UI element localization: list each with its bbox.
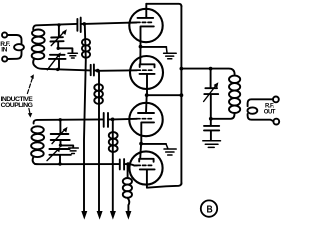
variable capacitor C1 lower stem bbox=[58, 59, 60, 69]
tube V3 cathode bbox=[141, 122, 154, 143]
C1 rotor tap wire bbox=[58, 42, 72, 53]
variable capacitor C1 upper arrowhead bbox=[62, 29, 67, 35]
svg-text:COUPLING: COUPLING bbox=[1, 102, 33, 109]
RF output terminal bottom bbox=[273, 119, 279, 125]
variable capacitor C1 upper section stem bbox=[58, 25, 60, 36]
junction dot tank1 bottom at C1 stem bbox=[56, 68, 59, 71]
bus junction dot at output tank bbox=[180, 67, 184, 71]
output link top wire bbox=[248, 99, 273, 106]
plate bus bbox=[180, 6, 182, 184]
svg-text:IN: IN bbox=[1, 47, 7, 54]
ground between V1 and V2 bbox=[164, 47, 177, 59]
supply line D bbox=[127, 165, 129, 211]
wire V1 cathode to V2 plate bbox=[139, 47, 141, 64]
RF output terminal top bbox=[273, 97, 279, 103]
ground between V3 and V4 bbox=[164, 144, 176, 155]
output variable capacitor stem bottom bbox=[210, 94, 212, 118]
grid choke 2 loops bbox=[94, 84, 103, 104]
variable capacitor C4 lower plates bbox=[49, 149, 71, 155]
output tank coil bbox=[229, 76, 240, 113]
C4 rotor junction dot bbox=[59, 144, 62, 147]
variable capacitor C4 lower arrow bbox=[47, 150, 58, 161]
output link bottom wire bbox=[248, 114, 274, 121]
output variable capacitor plates bbox=[204, 88, 218, 94]
junction dot tank1 top at C1 stem bbox=[57, 23, 60, 26]
wire V2 cathode junction to bus bbox=[147, 94, 181, 96]
node G1 dot bbox=[83, 22, 87, 26]
cathode junction dot V1 bbox=[139, 45, 143, 49]
tank 2 bottom wire bbox=[35, 163, 119, 165]
variable capacitor C4 lower stem bbox=[59, 155, 61, 164]
variable capacitor C1 lower arrowhead bbox=[56, 52, 61, 58]
tube V3 grid bbox=[137, 118, 152, 120]
grid wire to tube V2 bbox=[98, 69, 137, 72]
variable capacitor C4 upper arrowhead bbox=[63, 127, 68, 133]
tube V1 cathode bbox=[141, 26, 154, 46]
cathode junction dot V3 bbox=[139, 142, 143, 146]
variable capacitor C1 upper arrow bbox=[51, 32, 63, 45]
tube V2 cathode bbox=[140, 74, 155, 95]
junction dot output tank bottom bbox=[209, 117, 213, 121]
junction dot tank2 top at C4 stem bbox=[59, 118, 62, 121]
wire V3 cathode to V4 plate bbox=[139, 144, 142, 159]
output variable capacitor stem top bbox=[210, 69, 212, 88]
wire from link loop to bottom input terminal bbox=[8, 50, 22, 59]
RF input terminal bottom bbox=[2, 56, 7, 61]
tank 1 bottom wire bbox=[36, 67, 91, 71]
wire from top input terminal to link loop bbox=[7, 35, 21, 44]
output variable capacitor arrowhead bbox=[214, 82, 219, 88]
supply arrow B bbox=[97, 211, 103, 220]
coupling capacitor C6 plates bbox=[120, 159, 124, 170]
tube V2 plate bbox=[140, 64, 155, 67]
ground at C1 tap bbox=[68, 53, 77, 58]
variable capacitor C1 lower plates bbox=[49, 55, 66, 59]
grid wire to tube V3 bbox=[113, 118, 137, 121]
RF input terminal top bbox=[2, 32, 7, 37]
output tank top wire bbox=[181, 69, 234, 75]
grid wire to tube V1 bbox=[84, 23, 136, 24]
tube V4 cathode bbox=[140, 169, 155, 187]
grid wire to tube V4 bbox=[128, 164, 137, 165]
supply line A bbox=[84, 26, 86, 212]
callout arrowhead down bbox=[28, 113, 33, 118]
output bypass capacitor stem bbox=[210, 119, 212, 126]
node G3 dot bbox=[111, 118, 115, 122]
callout arrow down to coil 2 bbox=[29, 109, 30, 114]
coupling capacitor C3 plates bbox=[91, 64, 94, 75]
coupling capacitor C3 right lead bbox=[94, 70, 97, 72]
variable capacitor C4 upper plates bbox=[51, 134, 70, 140]
variable capacitor C1 upper plates bbox=[50, 37, 63, 41]
tube V2 grid bbox=[137, 69, 152, 71]
supply line B bbox=[98, 72, 100, 211]
callout arrowhead up bbox=[30, 74, 34, 79]
grid choke 4 loops bbox=[123, 178, 132, 198]
supply arrow C bbox=[110, 211, 116, 220]
svg-text:B: B bbox=[207, 204, 213, 216]
ground at C4 tap bbox=[69, 148, 79, 154]
plate top wire to bus bbox=[146, 4, 181, 7]
tube V4 plate bbox=[139, 159, 153, 162]
tube V3 envelope bbox=[129, 103, 162, 136]
tube V1 envelope bbox=[129, 9, 162, 42]
output tank bottom wire bbox=[211, 114, 235, 119]
tank 2 top wire bbox=[34, 119, 103, 123]
supply arrow A bbox=[81, 211, 87, 220]
tank coil 1 bbox=[32, 30, 45, 67]
coupling capacitor C2 plates bbox=[77, 18, 80, 32]
bus junction dot at V2 cathode wire bbox=[180, 93, 184, 97]
ground at output bypass capacitor bbox=[203, 141, 221, 148]
supply arrow D bbox=[125, 211, 131, 220]
wire cathode V3 to ground bbox=[141, 143, 166, 145]
supply line C bbox=[112, 120, 114, 211]
callout arrow up to coil 1 bbox=[27, 78, 32, 94]
tube V1 grid bbox=[137, 21, 152, 23]
junction dot tank2 bottom at C4 stem bbox=[58, 162, 61, 165]
output bypass capacitor lower stem bbox=[210, 131, 212, 141]
input link coupling loop bbox=[14, 44, 24, 50]
grid choke 1 loops bbox=[82, 39, 90, 58]
variable capacitor C4 lower arrowhead bbox=[56, 147, 61, 153]
junction dot output variable cap stem bbox=[209, 67, 213, 71]
coupling capacitor C5 right lead bbox=[108, 118, 112, 120]
tank coil 2 bbox=[31, 126, 44, 164]
wire cathode V1 to ground bbox=[141, 46, 167, 48]
C4 rotor tap wire bbox=[61, 140, 74, 147]
coupling capacitor C6 right lead bbox=[124, 163, 128, 165]
wire V2 cathode to V3 plate bbox=[145, 95, 148, 113]
variable capacitor C1 lower arrow bbox=[47, 56, 58, 70]
grid choke 3 loops bbox=[109, 132, 118, 152]
output link coupling loop bbox=[248, 107, 258, 113]
variable capacitor C4 upper arrow bbox=[52, 130, 65, 144]
cathode junction dot V2 bbox=[145, 93, 149, 97]
tube V4 grid bbox=[137, 164, 152, 166]
output bypass capacitor plates bbox=[204, 126, 219, 130]
C1 rotor junction dot bbox=[57, 47, 60, 50]
wire V4 cathode to bus bottom bbox=[147, 183, 182, 188]
node G4 dot bbox=[126, 162, 130, 166]
tank 1 top wire bbox=[33, 24, 76, 30]
coupling capacitor C2 right lead bbox=[81, 23, 85, 25]
output variable capacitor arrow bbox=[204, 86, 216, 102]
variable capacitor C4 upper stem bbox=[59, 120, 61, 133]
tube V4 envelope bbox=[129, 151, 162, 184]
figure label circle B bbox=[201, 200, 217, 216]
tube V1 plate bbox=[138, 4, 154, 18]
node G2 dot bbox=[96, 69, 100, 73]
tube V2 envelope bbox=[130, 56, 163, 89]
tube V3 plate bbox=[138, 112, 154, 114]
coupling capacitor C5 plates bbox=[104, 113, 108, 127]
svg-text:OUT: OUT bbox=[264, 110, 276, 116]
